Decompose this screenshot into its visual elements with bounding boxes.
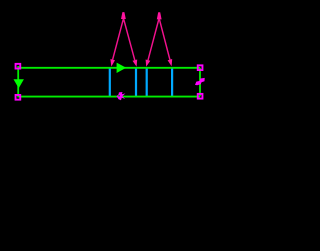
vertex marker top-left (magenta box) bbox=[16, 64, 21, 69]
arrowhead down on left vertical (green) bbox=[14, 79, 24, 88]
block B1 left edge (blue) bbox=[109, 68, 111, 97]
vertex marker bottom-left (magenta box) bbox=[16, 95, 21, 100]
arrowhead C (deeppink) bbox=[146, 60, 151, 67]
annotation line C (deeppink) bbox=[148, 19, 159, 60]
block B2 left edge (blue) bbox=[146, 68, 148, 97]
annotation line A (deeppink) bbox=[113, 19, 124, 60]
wire top rail (green) bbox=[18, 67, 200, 69]
block B2 right edge (blue) bbox=[171, 68, 173, 97]
arrowhead D (deeppink) bbox=[168, 59, 173, 66]
magenta arrow on bottom rail (left-pointing dart) bbox=[116, 92, 125, 100]
vertex marker bottom-right (magenta box) bbox=[198, 94, 203, 99]
annotation line D (deeppink) bbox=[159, 19, 170, 59]
wire left vertical (green) bbox=[17, 66, 19, 97]
wire bottom rail (green) bbox=[18, 96, 200, 98]
green dot inside bottom dart bbox=[118, 95, 120, 96]
apex arrow 1 (deeppink) bbox=[121, 12, 126, 19]
wire right vertical (green) bbox=[199, 68, 201, 97]
vertex marker top-right (magenta box) bbox=[198, 65, 203, 70]
magenta arrow on right vertical (diagonal dart) bbox=[195, 78, 205, 85]
arrowhead A (deeppink) bbox=[110, 59, 115, 67]
apex arrow 2 (deeppink) bbox=[157, 12, 162, 19]
annotation line B (deeppink) bbox=[124, 19, 135, 60]
arrowhead right on top rail (green) bbox=[117, 63, 127, 73]
arrowhead B (deeppink) bbox=[133, 60, 138, 67]
block B1 right edge (blue) bbox=[135, 68, 137, 97]
